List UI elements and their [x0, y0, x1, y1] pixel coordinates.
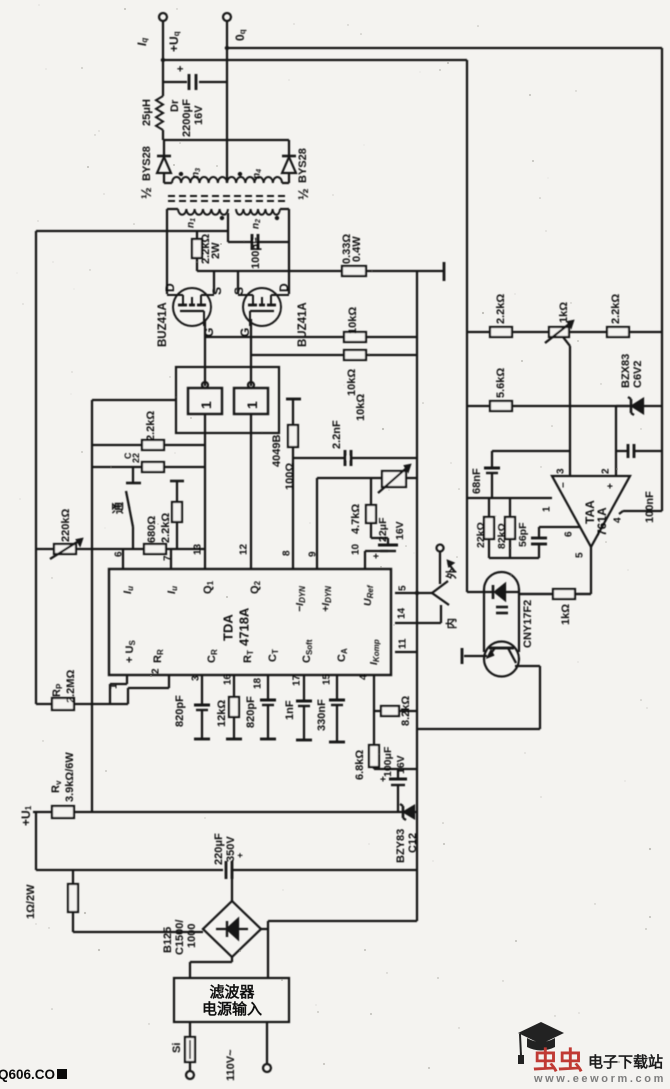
svg-text:½: ½	[295, 188, 311, 200]
svg-text:TDA: TDA	[221, 614, 236, 641]
wire +U1 left rail	[35, 231, 37, 704]
resistor R 2.2k lower divider	[607, 327, 629, 337]
wire Q2 source	[237, 271, 239, 294]
svg-text:Si: Si	[171, 1043, 183, 1053]
svg-text:外: 外	[444, 568, 458, 580]
wire source rail	[197, 270, 444, 272]
ground tick source rail	[443, 262, 446, 281]
resistor R 12k pin16	[233, 675, 235, 697]
capacitor C 1nF pin17	[303, 675, 305, 701]
wire pot wiper to pin3	[563, 337, 570, 346]
svg-text:C: C	[123, 452, 133, 459]
junction dots	[415, 591, 419, 595]
svg-text:16V: 16V	[394, 521, 406, 540]
svg-text:+: +	[606, 483, 617, 489]
wire opamp output	[590, 547, 592, 594]
svg-text:15: 15	[322, 673, 333, 685]
svg-text:BYS28: BYS28	[141, 146, 153, 181]
svg-text:220μF: 220μF	[213, 833, 225, 865]
svg-text:1000: 1000	[186, 924, 198, 948]
svg-text:17: 17	[292, 674, 303, 686]
svg-text:680Ω: 680Ω	[146, 516, 158, 543]
resistor R 100R	[292, 399, 294, 425]
svg-text:6: 6	[564, 531, 575, 537]
resistor R 0.33R 0.4W	[342, 266, 366, 276]
wire gate2 pulldown line	[251, 354, 417, 356]
svg-text:16V: 16V	[193, 105, 205, 125]
zener BZY83 C12	[404, 806, 414, 818]
svg-text:2.2kΩ: 2.2kΩ	[495, 294, 507, 324]
terminal mains right	[266, 1022, 268, 1064]
watermark graduation cap logo	[518, 1022, 564, 1044]
capacitor C 100pF	[228, 241, 289, 243]
wire comp network bottom	[489, 557, 539, 559]
resistor R 10k gate2	[344, 350, 366, 360]
resistor R 2.2k upper divider	[490, 327, 512, 337]
svg-text:12kΩ: 12kΩ	[216, 700, 228, 727]
resistor R 10k gate1	[344, 332, 366, 342]
wire sync line	[36, 548, 205, 550]
capacitor C 100uF 16V	[397, 769, 399, 779]
svg-text:+: +	[379, 776, 390, 782]
wire 0q top rail	[227, 47, 662, 49]
svg-text:D: D	[163, 283, 177, 292]
capacitor C 820pF pin18	[267, 675, 269, 700]
transformer secondary n4	[227, 177, 282, 183]
svg-text:5: 5	[398, 585, 409, 591]
svg-text:电源输入: 电源输入	[202, 1000, 262, 1018]
svg-text:虫虫: 虫虫	[533, 1047, 583, 1075]
mains filter box	[174, 978, 289, 1022]
svg-text:10kΩ: 10kΩ	[347, 307, 359, 334]
svg-text:6.8kΩ: 6.8kΩ	[354, 750, 366, 780]
IC 4049B block outline	[176, 367, 279, 433]
resistor R 22k	[488, 498, 490, 517]
wire aux top line	[92, 399, 176, 401]
inductor Dr 25uH	[156, 96, 163, 130]
wire pullup line 2	[92, 466, 205, 468]
svg-text:10kΩ: 10kΩ	[346, 369, 358, 396]
wire pin14 internal	[395, 622, 441, 624]
resistor R 2.2k pullup	[142, 440, 164, 450]
wire reference line	[467, 405, 629, 407]
terminal +Uq	[159, 13, 167, 21]
svg-text:56pF: 56pF	[517, 522, 529, 547]
wire center tap to +U1 rail	[36, 230, 228, 232]
svg-text:BZX83: BZX83	[620, 354, 632, 388]
terminal 0q	[223, 13, 231, 21]
resistor RP 2.2M	[36, 703, 128, 705]
svg-text:22μF: 22μF	[377, 517, 389, 542]
svg-text:+: +	[372, 553, 383, 559]
wire aux rail vertical	[91, 400, 93, 812]
svg-text:12: 12	[239, 543, 250, 555]
opto coupling bars	[496, 606, 508, 609]
zener BZX83 C6V2	[632, 399, 643, 413]
svg-text:2: 2	[151, 668, 162, 674]
opto LED	[495, 584, 505, 600]
switch tong	[132, 527, 134, 549]
svg-text:350V: 350V	[225, 836, 237, 862]
opto transistor circle	[484, 642, 519, 677]
wire bridge top to minus rail	[231, 870, 233, 901]
svg-text:C12: C12	[407, 833, 419, 853]
wire pin4 node	[373, 675, 375, 711]
svg-text:22kΩ: 22kΩ	[475, 522, 487, 548]
svg-text:82kΩ: 82kΩ	[496, 523, 508, 549]
svg-text:B125: B125	[162, 927, 174, 953]
wire pin2 hook	[168, 675, 170, 688]
capacitor C 100nF	[616, 450, 628, 452]
wire gate A input to pin13	[204, 414, 206, 569]
wire Q1 gate	[204, 319, 206, 386]
capacitor C 68nF	[491, 451, 493, 468]
svg-text:1: 1	[542, 506, 553, 512]
wire rectified node	[163, 139, 289, 141]
capacitor C 820pF pin3	[201, 675, 203, 705]
svg-text:820pF: 820pF	[174, 695, 186, 727]
wire 0q vertical	[226, 21, 228, 183]
wire inductor to rectified node	[162, 130, 164, 140]
op-amp U2 TAA761A	[552, 476, 630, 547]
resistor R 1R 2W	[72, 870, 74, 884]
svg-text:2.2nF: 2.2nF	[331, 420, 343, 449]
wire pin7 stub	[170, 549, 172, 569]
transistor Q1 BUZ41A	[173, 288, 211, 326]
svg-text:4049B: 4049B	[271, 435, 283, 467]
svg-text:CNY17F2: CNY17F2	[522, 600, 534, 648]
capacitor C 22uF 16V	[371, 537, 388, 539]
wire pin11 stub	[395, 651, 417, 653]
svg-text:C6V2: C6V2	[632, 360, 644, 388]
resistor R 2.2k 2W	[196, 231, 198, 271]
wire +U sense top rail	[163, 59, 467, 61]
svg-text:3: 3	[556, 468, 567, 474]
wire Q2 gate	[250, 319, 252, 386]
svg-text:1kΩ: 1kΩ	[558, 302, 570, 323]
svg-text:4718A: 4718A	[237, 607, 252, 646]
svg-text:5: 5	[575, 552, 586, 558]
svg-text:330nF: 330nF	[316, 699, 328, 731]
transformer secondary n3	[164, 182, 172, 184]
transistor Q2 BUZ41A	[243, 288, 281, 326]
wire pin6 stub	[122, 549, 124, 569]
svg-text:0.4W: 0.4W	[351, 236, 363, 262]
svg-text:100Ω: 100Ω	[284, 463, 296, 490]
wire LED anode via 1k	[519, 593, 553, 595]
resistor R 6.8k	[373, 711, 375, 745]
svg-text:3.9kΩ/6W: 3.9kΩ/6W	[64, 752, 76, 802]
svg-text:BZY83: BZY83	[395, 829, 407, 863]
svg-text:25μH: 25μH	[141, 99, 153, 126]
transformer primary n2	[236, 209, 280, 215]
wire pin1 hook	[126, 675, 128, 684]
resistor R 680R	[144, 544, 166, 554]
svg-text:68nF: 68nF	[471, 468, 483, 494]
svg-text:8: 8	[282, 550, 293, 556]
wire pin2 reference stub	[615, 406, 617, 476]
svg-text:1: 1	[244, 401, 260, 409]
selector switch internal-external	[395, 592, 432, 594]
svg-text:−: −	[559, 482, 570, 488]
svg-text:4: 4	[359, 674, 370, 680]
svg-text:+: +	[175, 66, 187, 72]
wire opto collector to pin4 line	[515, 665, 540, 667]
svg-text:3: 3	[191, 675, 202, 681]
resistor R 2.2k vertical	[170, 480, 184, 483]
svg-text:Dr: Dr	[169, 99, 181, 112]
transformer core	[168, 195, 287, 197]
wire primary center tap	[227, 213, 229, 242]
svg-text:8.2kΩ: 8.2kΩ	[400, 696, 412, 726]
capacitor 22	[142, 462, 164, 472]
inverter gate A	[188, 388, 222, 414]
svg-text:滤波器: 滤波器	[209, 983, 255, 1001]
svg-text:1: 1	[198, 401, 214, 409]
wire pin9 node	[316, 478, 318, 569]
svg-text:内: 内	[444, 618, 458, 629]
svg-text:BUZ41A: BUZ41A	[297, 302, 309, 347]
IC U1 TDA4718A outline	[109, 569, 391, 675]
svg-text:10: 10	[351, 543, 362, 555]
svg-text:BUZ41A: BUZ41A	[157, 302, 169, 347]
resistor R 220k	[54, 544, 76, 554]
svg-text:1kΩ: 1kΩ	[560, 604, 572, 625]
wire 0q right rail	[661, 48, 663, 511]
svg-text:11: 11	[398, 638, 409, 649]
opto transistor	[489, 647, 514, 650]
svg-text:2200μF: 2200μF	[181, 99, 193, 137]
wire +Uq to inductor	[162, 21, 164, 96]
potentiometer 10k	[382, 471, 406, 487]
svg-text:100μF: 100μF	[382, 746, 394, 777]
fuse Si	[189, 1022, 191, 1037]
wire pin8 node	[292, 458, 294, 569]
wire +U sense rail right	[466, 60, 468, 592]
wire +U1 to bulk line	[35, 812, 37, 870]
capacitor C 2200uF 16V	[163, 81, 187, 83]
svg-text:BYS28: BYS28	[297, 148, 309, 183]
diode D2 1/2 BYS28	[288, 140, 290, 156]
svg-text:5.6kΩ: 5.6kΩ	[495, 368, 507, 398]
svg-text:13: 13	[193, 543, 204, 555]
svg-text:16: 16	[223, 673, 234, 685]
svg-text:2.2kΩ: 2.2kΩ	[160, 513, 172, 543]
wire opto emitter tick	[464, 655, 487, 657]
inverter gate B	[234, 388, 268, 414]
optocoupler U3 CNY17F2 body	[484, 572, 519, 652]
svg-text:16V: 16V	[395, 755, 407, 774]
svg-text:Q606.CO: Q606.CO	[0, 1067, 55, 1082]
svg-text:10kΩ: 10kΩ	[355, 394, 367, 421]
resistor R 1k output	[553, 589, 575, 599]
svg-text:1Ω/2W: 1Ω/2W	[25, 884, 37, 919]
wire opamp pin1 line	[467, 497, 552, 499]
resistor R 8.2k	[374, 710, 417, 712]
capacitor C 56pF	[531, 537, 547, 540]
wire pullup line 1	[92, 444, 205, 446]
svg-text:S: S	[210, 287, 224, 295]
wire bridge bottom to filter	[231, 957, 233, 962]
wire inverting input line	[492, 450, 570, 452]
wire pin10 stub	[364, 551, 366, 569]
svg-text:220kΩ: 220kΩ	[60, 509, 72, 542]
capacitor C 330nF pin15	[336, 675, 338, 700]
wire gate1 pulldown line	[205, 336, 417, 338]
svg-text:www.eeworm.com: www.eeworm.com	[533, 1073, 666, 1084]
svg-text:4: 4	[613, 517, 624, 523]
diode D1 1/2 BYS28	[163, 140, 165, 156]
resistor R 4.7k	[370, 478, 372, 505]
svg-text:100pF: 100pF	[250, 237, 262, 269]
svg-text:1nF: 1nF	[284, 700, 296, 720]
capacitor C 2.2nF	[293, 457, 417, 459]
svg-text:C1500/: C1500/	[174, 920, 186, 955]
wire divider line	[467, 331, 662, 333]
wire bridge ac left to 1R	[73, 931, 203, 933]
svg-text:½: ½	[138, 187, 154, 199]
wire opamp pin4 ground	[619, 511, 623, 514]
svg-text:820pF: 820pF	[245, 696, 257, 728]
capacitor C 220uF 350V	[225, 861, 228, 879]
svg-text:2.2MΩ: 2.2MΩ	[65, 670, 77, 703]
wire primary left to Q1 drain	[166, 209, 168, 294]
wire primary ground rail	[416, 271, 418, 921]
wire aux supply +U1 line	[33, 811, 52, 813]
svg-text:100nF: 100nF	[644, 491, 656, 523]
svg-text:110V~: 110V~	[225, 1049, 237, 1081]
bridge rectifier B125 C1500-1000	[203, 901, 261, 957]
wire LED cathode to sense rail	[467, 591, 484, 593]
resistor R 82k	[509, 498, 511, 517]
resistor R 5.6k	[490, 401, 512, 411]
svg-text:2.2kΩ: 2.2kΩ	[145, 411, 157, 441]
svg-text:2.2kΩ: 2.2kΩ	[610, 294, 622, 324]
wire Q1 source	[213, 271, 215, 294]
svg-text:2: 2	[601, 468, 612, 474]
svg-text:14: 14	[397, 607, 408, 619]
svg-text:18: 18	[253, 677, 264, 689]
resistor Rv 3.9k 6W	[52, 806, 74, 818]
svg-text:D: D	[277, 283, 291, 292]
svg-text:电子下载站: 电子下载站	[588, 1053, 663, 1071]
transformer primary n1	[167, 208, 178, 210]
svg-text:761A: 761A	[595, 507, 609, 536]
potentiometer 1k	[549, 327, 569, 337]
svg-text:4.7kΩ: 4.7kΩ	[350, 504, 362, 534]
wire bridge ac right to filter	[261, 928, 268, 930]
wire primary right to Q2 drain	[288, 209, 290, 294]
wire gate B input to pin12	[250, 414, 252, 569]
